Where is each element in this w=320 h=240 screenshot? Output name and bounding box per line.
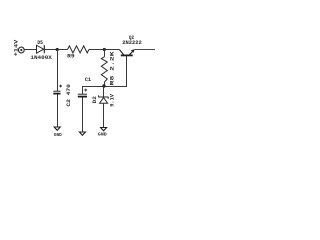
svg-text:C1: C1 bbox=[85, 76, 92, 83]
svg-text:R8 2.2K: R8 2.2K bbox=[109, 50, 116, 85]
transistor Q2 bbox=[120, 49, 135, 56]
zener diode D2 bbox=[99, 95, 109, 103]
node +14V input terminal bbox=[18, 47, 24, 53]
capacitor C2 bbox=[53, 85, 62, 94]
wire D5 to R9 bbox=[44, 49, 67, 51]
wire D2 to base rail bbox=[103, 87, 105, 97]
node junction at D2/R8 bbox=[102, 84, 105, 87]
svg-text:2N2222: 2N2222 bbox=[122, 39, 142, 46]
svg-text:1N400X: 1N400X bbox=[30, 54, 52, 61]
ground under C2 bbox=[54, 127, 62, 138]
wire C2 branch vertical bbox=[57, 50, 59, 92]
wire D2 to ground bbox=[103, 103, 105, 127]
ground under D2 bbox=[98, 128, 107, 138]
ground under C1 bbox=[79, 132, 85, 135]
svg-text:D5: D5 bbox=[37, 39, 43, 46]
wire terminal to D5 bbox=[24, 49, 36, 51]
svg-text:GND: GND bbox=[98, 131, 107, 137]
svg-text:9.1V: 9.1V bbox=[109, 93, 116, 106]
svg-text:GND: GND bbox=[54, 132, 62, 138]
svg-text:R9: R9 bbox=[67, 53, 75, 60]
svg-text:C2 470: C2 470 bbox=[65, 84, 72, 107]
diode D5 bbox=[37, 45, 45, 53]
wire base rail bbox=[83, 56, 127, 94]
node junction at C2 branch bbox=[56, 48, 59, 51]
capacitor C1 bbox=[78, 89, 87, 97]
resistor R9 bbox=[68, 46, 90, 53]
wire C2 to ground bbox=[57, 95, 59, 128]
wire C1 to ground bbox=[82, 98, 84, 132]
wire R9 to Q2 collector bbox=[89, 49, 120, 51]
wire Q2 emitter to output bbox=[134, 49, 155, 51]
svg-text:D2: D2 bbox=[91, 96, 98, 103]
resistor R8 bbox=[101, 50, 107, 87]
node junction at R8 top bbox=[103, 48, 106, 51]
svg-text:+14V: +14V bbox=[12, 39, 19, 56]
